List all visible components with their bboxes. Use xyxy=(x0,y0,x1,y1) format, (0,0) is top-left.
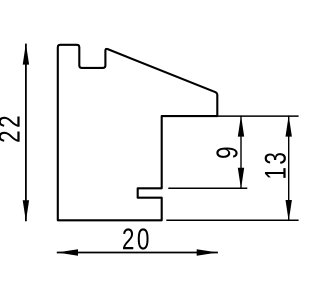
dimension line 22 (left vertical) xyxy=(25,44,27,222)
extension line middle (y=188) xyxy=(168,187,247,189)
arrow 20 right xyxy=(197,249,218,255)
arrow 20 left xyxy=(57,249,78,255)
dimension line 20 (bottom horizontal) xyxy=(57,252,218,254)
label 13 (rotated) xyxy=(265,153,286,178)
arrow 13 up xyxy=(286,115,292,136)
profile outline (moulding cross-section) xyxy=(58,45,218,221)
extension line top (rebate top, y=116) xyxy=(217,115,298,117)
arrow 9 down xyxy=(238,168,244,189)
dimension line 13 (right vertical) xyxy=(288,115,290,221)
label 9 (rotated) xyxy=(216,148,237,158)
arrow 22 bottom xyxy=(23,200,29,221)
label 22 (rotated) xyxy=(0,117,20,142)
label 20 xyxy=(123,228,149,249)
arrow 13 down xyxy=(286,200,292,221)
arrow 9 up xyxy=(238,115,244,136)
dimension line 9 (rebate depth) xyxy=(240,115,242,189)
extension line bottom (y=220) xyxy=(166,219,298,221)
arrow 22 top xyxy=(23,43,29,64)
